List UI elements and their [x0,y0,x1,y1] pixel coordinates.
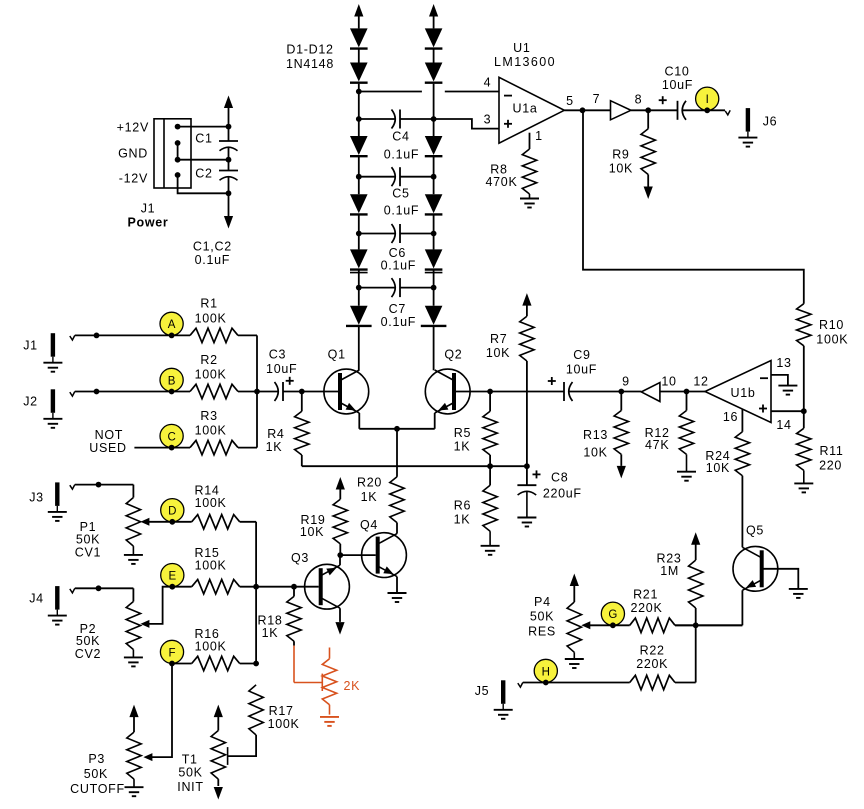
svg-text:R5: R5 [454,426,471,440]
svg-text:1M: 1M [660,564,679,578]
wire GND pin link [177,143,179,160]
wire R19 to junction [339,544,341,555]
diode D11 [425,249,443,268]
capacitor C5 [399,167,401,186]
wire Q3 collector to -V arrow [339,608,341,622]
svg-text:R22: R22 [640,644,665,658]
svg-text:4: 4 [484,75,492,89]
resistor R16 [172,663,192,665]
svg-text:R11: R11 [819,444,843,458]
svg-text:10K: 10K [609,162,633,176]
wire Q5 emitter [741,590,743,625]
svg-text:10uF: 10uF [266,362,297,376]
svg-text:50K: 50K [530,609,554,623]
svg-text:C7: C7 [389,302,406,316]
wire Q5 base to ground [762,569,798,589]
svg-text:U1b: U1b [730,386,755,400]
wire G to R21 [613,624,630,626]
power rail +V arrow [224,96,233,109]
resistor R23 [695,608,697,625]
svg-text:1K: 1K [454,513,471,527]
resistor R24 [735,432,749,476]
power rail -V arrow [228,177,230,216]
svg-text:10K: 10K [486,346,510,360]
wire Q2 emitter [434,413,436,429]
op-amp U1a [499,77,564,143]
wire buffer to U1b [660,391,705,393]
buffer amp pins 7-8 [611,101,631,120]
svg-text:U1a: U1a [512,102,537,116]
ground Q4 [388,592,407,594]
wire buffer out [631,109,678,111]
svg-text:0.1uF: 0.1uF [384,203,419,217]
svg-text:J5: J5 [475,684,490,698]
svg-text:R13: R13 [583,428,608,442]
wire R2 to bus [238,391,257,393]
svg-text:J3: J3 [29,491,44,505]
potentiometer P1 [126,498,140,547]
svg-text:R2: R2 [200,353,217,367]
svg-text:CUTOFF: CUTOFF [70,782,125,796]
svg-text:G: G [608,609,617,621]
svg-text:10: 10 [661,374,676,388]
node H [534,659,557,682]
svg-text:0.1uF: 0.1uF [195,253,230,267]
resistor R22 [630,675,675,689]
svg-text:1: 1 [535,129,543,143]
capacitor C6 [399,224,401,243]
svg-text:8: 8 [635,93,643,107]
resistor R4 [301,392,303,412]
svg-text:1K: 1K [262,626,279,640]
svg-text:C1,C2: C1,C2 [193,239,232,253]
svg-text:220K: 220K [631,601,663,615]
svg-text:J6: J6 [763,114,778,128]
diode D3 [350,136,368,155]
svg-text:220: 220 [819,459,842,473]
diode D6 [350,306,368,325]
svg-text:47K: 47K [645,438,669,452]
jack J6 [746,108,750,132]
svg-text:Q4: Q4 [360,518,378,532]
wire emitter junction [359,428,434,430]
transistor Q4 [362,533,407,578]
ground C8 [526,492,528,518]
wire R22 right end [675,682,696,684]
connector J1 [154,119,191,188]
jack J5 tip hook [518,683,523,688]
svg-text:0.1uF: 0.1uF [381,259,416,273]
wire R4 to rail [301,455,303,466]
emitter rail R4-R5-C8 [302,465,527,467]
node B [160,368,183,391]
resistor R21 [630,618,675,632]
svg-text:50K: 50K [76,533,100,547]
resistor R17 [249,685,263,735]
node F [160,640,183,663]
svg-text:10uF: 10uF [566,363,597,377]
svg-text:NOT: NOT [95,428,124,442]
svg-text:INIT: INIT [177,780,203,794]
resistor R6 [489,466,491,485]
resistor R14 [172,521,191,523]
wire pin14 [771,410,804,412]
jack J3 tip hook [70,485,75,490]
input bus [256,335,258,447]
svg-text:J4: J4 [29,592,44,606]
diode D4 [350,194,368,213]
svg-text:1K: 1K [361,490,378,504]
diode chain left +V arrow [354,4,363,17]
wire R24 to Q5 [741,476,743,548]
svg-text:GND: GND [118,147,148,161]
svg-text:U1: U1 [513,41,530,55]
resistor R15 [172,586,191,588]
wire R15 row to Q3 base [240,586,319,588]
svg-text:1K: 1K [454,440,471,454]
svg-text:100K: 100K [195,496,227,510]
diode D8 [425,63,443,82]
potentiometer P3 [129,705,138,718]
wire R10 to R11 [803,346,805,429]
svg-text:12: 12 [693,374,708,388]
node row C4 / U1a pin3 [356,116,362,122]
resistor R12 [686,392,688,411]
wire +12V pin to C1 rail [178,126,229,128]
ground R8 [529,194,531,199]
svg-text:P3: P3 [88,752,105,766]
svg-text:C8: C8 [551,471,568,485]
svg-text:P4: P4 [534,595,551,609]
capacitor C1 [219,140,238,142]
svg-text:10K: 10K [583,446,607,460]
wire junction to R22 [695,625,697,682]
trimmer T1 [214,705,223,718]
node I [696,87,719,110]
capacitor C2 [219,170,238,172]
R23 +V arrow [691,532,700,545]
svg-text:R3: R3 [200,409,217,423]
wire row H [523,682,630,684]
wire Q3 emitter up [339,555,341,565]
ground P2 [132,650,134,658]
resistor R20 [390,477,404,523]
node row C6 [356,231,362,237]
svg-text:100K: 100K [195,311,227,325]
wire -12V pin [178,175,229,193]
ground 2K trimmer (orange) [320,716,339,718]
wire E to P2 wiper [147,587,172,624]
potentiometer P2 [126,602,140,650]
svg-text:0.1uF: 0.1uF [384,148,419,162]
ground R6 [489,531,491,546]
svg-text:T1: T1 [182,753,198,767]
wire R21 to junction [675,624,742,626]
svg-text:50K: 50K [178,766,202,780]
svg-text:B: B [168,375,176,387]
diode D7 [425,28,443,47]
wire R20 to Q4 collector [396,523,398,534]
svg-text:R7: R7 [490,332,507,346]
ground pin13 [778,385,797,387]
T1 -V arrow [217,779,219,786]
svg-text:R4: R4 [267,427,284,441]
ground R12 [686,454,688,471]
svg-text:+12V: +12V [117,121,149,135]
node G [601,602,624,625]
resistor R7 [522,293,531,306]
svg-text:14: 14 [776,418,791,432]
svg-text:1N4148: 1N4148 [286,57,334,71]
svg-text:C: C [167,431,175,443]
svg-text:RES: RES [528,625,556,639]
svg-text:E: E [168,571,176,583]
svg-text:C9: C9 [573,348,590,362]
svg-text:Q5: Q5 [746,524,764,538]
svg-text:R10: R10 [819,318,844,332]
svg-text:I: I [706,94,709,106]
diode D10 [425,194,443,213]
potentiometer P4 [570,574,579,587]
capacitor C7 [399,278,401,297]
svg-text:100K: 100K [195,367,227,381]
wire C3 to Q1 base [283,391,340,393]
wire pin3 step [434,119,499,129]
wire R17 to T1 wiper [228,735,257,756]
ground P4 [573,652,575,659]
svg-text:10uF: 10uF [662,78,693,92]
svg-text:Q2: Q2 [444,348,462,362]
capacitor C10 [677,101,679,120]
diode D1 [350,28,368,47]
diode chain right +V arrow [429,4,438,17]
svg-text:CV1: CV1 [75,546,101,560]
svg-text:5: 5 [566,94,574,108]
jack J4 tip hook [70,588,75,593]
resistor R9 [647,110,649,128]
resistor R13 [620,392,622,411]
wire row J4 to P2 [75,587,134,589]
resistor R8 [522,149,536,194]
wire Q1 emitter [358,413,360,429]
wire Q2 base row [455,391,564,393]
diode D5 [350,249,368,268]
wire C10 to J6 [683,109,726,111]
wire feedback node5 to R10 [583,110,804,303]
node A [160,312,183,335]
bus2 vertical [255,522,257,664]
svg-text:9: 9 [622,374,630,388]
wire D to P1 wiper [147,521,172,523]
svg-text:-12V: -12V [119,172,148,186]
resistor R10 [797,304,811,346]
ground R11 [803,470,805,483]
svg-text:100K: 100K [268,717,300,731]
trimmer 2K (orange) [293,646,295,683]
svg-text:C1: C1 [195,132,212,146]
wire F down to P3 wiper [150,664,172,758]
svg-text:R1: R1 [200,297,217,311]
jack J3 [55,482,59,506]
svg-text:D: D [168,506,176,518]
node C [160,424,183,447]
svg-text:100K: 100K [195,559,227,573]
diode D12 [425,306,443,325]
svg-text:C3: C3 [269,348,286,362]
transistor Q2 [425,369,470,414]
svg-text:16: 16 [723,410,738,424]
svg-text:7: 7 [593,92,601,106]
capacitor C3 [257,391,279,393]
svg-text:C4: C4 [392,129,409,143]
jack J6 tip hook [725,110,730,115]
trimmer T1 wiper bar [227,747,229,765]
diode chain left wire segments [358,49,360,63]
svg-text:13: 13 [776,356,791,370]
svg-text:100K: 100K [195,424,227,438]
svg-text:Q3: Q3 [291,551,309,565]
diode chain right wire segments [433,49,435,63]
wire R14 to bus2 [240,521,256,523]
svg-text:10K: 10K [706,461,730,475]
wire R1 to bus [238,334,257,336]
svg-text:R21: R21 [633,588,658,602]
svg-text:A: A [168,319,176,331]
svg-text:220K: 220K [636,657,668,671]
jack J4 [55,586,59,610]
ground P3 [133,779,135,787]
wire G to P4 wiper [588,624,613,626]
svg-text:470K: 470K [486,175,518,189]
svg-text:D1-D12: D1-D12 [286,42,333,56]
resistor R3 [190,440,238,454]
ground Q5 base [789,588,808,590]
node D [161,499,184,522]
transistor Q5 [733,546,778,591]
svg-text:1K: 1K [266,440,283,454]
wire R16 to bus2 [240,663,256,665]
svg-text:2K: 2K [343,679,360,693]
svg-text:C2: C2 [195,167,212,181]
resistor R19 [336,477,345,490]
wire row B [75,391,190,393]
svg-text:R6: R6 [454,499,471,513]
node R18 junction [291,584,297,590]
svg-text:J2: J2 [23,395,38,409]
svg-text:220uF: 220uF [543,487,582,501]
jack J1 tip hook [70,335,75,340]
R13 -V arrow [620,454,622,466]
svg-text:CV2: CV2 [75,647,101,661]
svg-text:F: F [168,647,175,659]
svg-text:J1: J1 [141,201,156,215]
buffer amp pins 10 [641,383,660,402]
capacitor C9 [563,382,565,401]
wire C9 to buffer [569,391,641,393]
wire R7 to rail [526,361,528,466]
svg-text:50K: 50K [84,767,108,781]
node row C7 [356,285,362,291]
transistor Q3 [305,564,350,609]
svg-text:USED: USED [89,441,127,455]
svg-text:3: 3 [484,112,492,126]
wire U1a pin1 to R8 [529,133,531,149]
diode D2 [350,63,368,82]
resistor R5 [489,392,491,412]
wire pin16 to R24 [741,409,743,432]
svg-text:H: H [542,666,550,678]
resistor R18 [293,587,295,597]
jack J1 [51,333,55,357]
svg-text:100K: 100K [816,333,848,347]
ground P1 [132,546,134,555]
svg-text:Q1: Q1 [328,348,346,362]
resistor R2 [190,384,238,398]
node: ladder to U1a pin4 [356,89,362,95]
transistor Q1 [324,369,369,414]
svg-text:R20: R20 [357,476,382,490]
svg-text:Power: Power [127,216,168,230]
svg-text:C5: C5 [392,186,409,200]
wire R3 to bus [238,447,257,449]
svg-text:0.1uF: 0.1uF [381,315,416,329]
resistor R11 [797,428,811,470]
wire Q4 emitter to ground [396,577,398,593]
op-amp U1b [705,361,771,423]
R9 -V arrow [647,175,649,187]
jack J2 [51,389,55,413]
jack J2 tip hook [70,392,75,397]
diode D9 [425,136,443,155]
svg-text:100K: 100K [195,640,227,654]
node row C5 [356,174,362,180]
svg-text:10K: 10K [300,525,324,539]
wire pin13 to ground [771,375,788,386]
wire row C [134,447,190,449]
wire U1a output [564,109,610,111]
wire junction to Q4 base [340,554,375,556]
jack J5 [501,680,505,704]
svg-text:J1: J1 [23,339,38,353]
svg-text:R17: R17 [269,704,294,718]
resistor R1 [190,328,238,342]
node E [161,564,184,587]
svg-text:R9: R9 [612,147,629,161]
svg-text:C10: C10 [664,65,689,79]
capacitor C8 [526,466,528,485]
wire row A [75,334,190,336]
capacitor C4 [399,110,401,129]
wire row J3 to P1 [75,484,134,486]
svg-text:LM13600: LM13600 [494,55,556,69]
